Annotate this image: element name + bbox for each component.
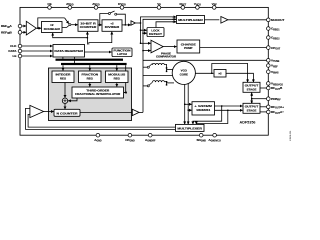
wire x2 out to output stage: [226, 73, 253, 82]
switch lever doubler bypass: [65, 18, 69, 24]
div2 divider box: [102, 20, 122, 32]
wire inductor rail stub 2: [143, 85, 147, 87]
wire between output stages: [251, 92, 253, 103]
wire DATA to data register: [22, 50, 53, 52]
N output buffer: [132, 109, 139, 115]
VCO core circle: [172, 61, 195, 84]
arrow mux bottom in 3: [192, 121, 194, 124]
wire inductor 1 vco stub: [167, 68, 174, 70]
wire CLK to data register: [22, 45, 53, 47]
wire output stage B to RFOUTB: [260, 87, 267, 89]
R counter box: [78, 20, 98, 32]
wire into PFD input 1: [141, 42, 151, 44]
svg-text:N COUNTER: N COUNTER: [57, 111, 79, 115]
RF divider box: [192, 102, 215, 115]
svg-text:CE: CE: [47, 2, 51, 6]
wire VCO down 1: [184, 84, 186, 125]
junction dots: [37, 22, 252, 111]
switch contact divider right: [115, 13, 117, 15]
wire REFinA to buffer: [22, 25, 26, 27]
REFin buffer: [26, 21, 36, 35]
svg-text:MUXOUT: MUXOUT: [271, 18, 285, 22]
wire doubler bypass up and over: [38, 18, 65, 28]
wire N input buffer to N counter: [44, 111, 54, 113]
wire R path up to multiplexer: [141, 17, 177, 23]
svg-text:PUMP: PUMP: [184, 46, 192, 50]
svg-text:DATA REGISTER: DATA REGISTER: [54, 49, 84, 53]
wire VCO bypass up over x2: [212, 64, 248, 82]
svg-text:16/32/64: 16/32/64: [196, 108, 210, 112]
svg-text:MULTIPLEXER: MULTIPLEXER: [178, 18, 204, 22]
wire R counter output: [98, 24, 102, 26]
wire data register to function latch: [85, 51, 112, 53]
arrow mux bottom in 1: [184, 121, 186, 124]
wire R path down to PFD input 1: [140, 23, 142, 43]
charge pump box: [177, 40, 200, 53]
svg-text:FRACTIONAL INTERPOLATOR: FRACTIONAL INTERPOLATOR: [75, 92, 121, 96]
bus data register up: [86, 38, 88, 45]
svg-text:DATA: DATA: [8, 49, 17, 53]
pin circles left: [18, 24, 22, 58]
svg-text:COMPARATOR: COMPARATOR: [156, 54, 177, 58]
muxout buffer: [221, 17, 228, 24]
svg-text:13909-001: 13909-001: [290, 130, 292, 141]
pin circles top: [48, 6, 216, 10]
switch lever divider bypass: [110, 11, 114, 13]
wire PFD to charge pump: [163, 46, 176, 48]
svg-text:STAGE: STAGE: [247, 87, 257, 91]
data register box: [53, 45, 85, 58]
sigma delta grey box: [49, 68, 132, 121]
fraction reg box: [79, 71, 102, 83]
svg-text:REFINB: REFINB: [1, 31, 13, 36]
bus over to divider: [89, 32, 112, 45]
N input buffer: [30, 105, 44, 117]
wire N counter to output buffer: [80, 111, 132, 113]
output stage A box: [243, 103, 260, 113]
wire charge pump to CPOUT pin: [200, 47, 267, 49]
arrow into output stage top 1: [247, 79, 249, 82]
arrow bus into doubler: [52, 33, 54, 36]
wire N path vertical: [143, 19, 176, 112]
wire VCO out to x2: [195, 72, 213, 74]
wire feedback line 1: [28, 114, 175, 127]
modulus reg box: [106, 71, 129, 83]
chip outline ADF5356: [20, 7, 268, 135]
multiplexer top box: [177, 16, 205, 24]
svg-text:ADF5356: ADF5356: [240, 120, 257, 125]
wire VCO tap to divider in 1: [185, 103, 192, 105]
function latch box: [112, 48, 132, 57]
wire VCO tap to divider in 2: [188, 109, 191, 111]
wire feedback tap 2 down to mux: [196, 110, 228, 124]
wire divider2 output 2: [215, 109, 243, 111]
wire divider2 output 1: [215, 105, 243, 107]
arrow mux input 2: [172, 18, 176, 20]
thick bus bar 2: [61, 63, 127, 65]
svg-text:CLK: CLK: [10, 44, 17, 48]
output stage B box: [243, 82, 260, 92]
wire inductor 2 to VCO: [165, 82, 167, 85]
N counter box: [54, 109, 80, 116]
wire divider bypass up and over: [100, 14, 109, 25]
wire VCO left lower line: [143, 75, 174, 77]
wire integer reg to summer: [64, 83, 66, 98]
wire feedback tap 1 down to mux: [193, 106, 222, 124]
svg-text:REG: REG: [87, 76, 94, 80]
wire lock detect output to multiplexer: [156, 22, 176, 28]
wire REFinB to buffer: [22, 31, 26, 33]
multiplexer bottom box: [176, 124, 205, 131]
wire inductor 1 to VCO: [165, 64, 167, 71]
wire interpolator to summer: [68, 98, 77, 101]
wire doubler output to switch contact: [62, 26, 69, 28]
arrow bus into divider: [111, 32, 113, 34]
arrow mux bottom in 2: [187, 121, 189, 124]
wire divider switch right contact down: [117, 14, 126, 25]
arrow mux input 3: [172, 21, 176, 23]
wire feedback line 2: [26, 108, 176, 129]
arrow into interpolator right: [124, 92, 127, 94]
bus over to doubler: [53, 33, 88, 38]
arrow mux bottom in 4: [195, 122, 197, 125]
arrow mux input 1: [172, 16, 176, 18]
x2 multiplier box: [214, 70, 226, 78]
wire into PFD input 2: [143, 50, 151, 52]
integer reg box: [52, 71, 74, 83]
wire LE to data register: [22, 55, 53, 57]
wire R path buffer output: [135, 22, 140, 24]
svg-text:DETECT: DETECT: [149, 32, 162, 36]
wire output stage A to RFOUTA+: [260, 106, 267, 108]
svg-text:STAGE: STAGE: [247, 108, 257, 112]
wire divider output to buffer: [122, 24, 131, 26]
wire switch to R counter: [71, 24, 78, 26]
wire PDBRF: [252, 98, 267, 100]
svg-text:CORE: CORE: [180, 72, 188, 76]
wire N output buffer right: [139, 111, 143, 113]
wire inductor rail stub 1: [143, 66, 147, 68]
svg-text:LATCH: LATCH: [117, 52, 127, 56]
svg-text:REG: REG: [60, 76, 67, 80]
summer: [62, 98, 67, 103]
bus right end into interpolator: [124, 65, 126, 92]
pin circles right: [267, 18, 271, 114]
arrow bus into R counter: [86, 32, 88, 38]
wire inductor 2 vco stub: [167, 82, 175, 84]
arrow into summer right: [68, 100, 71, 102]
wire fraction reg to interpolator: [89, 83, 91, 87]
third order fractional interpolator box: [72, 87, 124, 98]
svg-text:DIVIDER: DIVIDER: [105, 25, 121, 29]
wire buffer output to doubler: [36, 27, 41, 29]
lock detect box: [147, 28, 164, 37]
wire lock detect tap 2: [143, 32, 147, 34]
wire multiplexer to MUXOUT buffer: [205, 19, 220, 21]
pin circles bottom: [96, 133, 216, 137]
svg-text:MULTIPLEXER: MULTIPLEXER: [177, 126, 203, 130]
switch contact divider left: [108, 13, 110, 15]
bus data register down 2: [74, 57, 76, 64]
svg-text:COUNTER: COUNTER: [80, 25, 98, 29]
wire lock detect tap 1: [141, 29, 147, 31]
switch contact doubler: [69, 24, 71, 26]
arrow into output stage top 2: [252, 79, 254, 82]
svg-text:REFINA: REFINA: [1, 24, 13, 29]
arrow bus into modulus reg: [116, 65, 118, 70]
wire output stage A to RFOUTA-: [260, 111, 267, 113]
arrow bus into integer reg: [62, 65, 64, 70]
svg-text:DOUBLER: DOUBLER: [44, 27, 61, 31]
wire VCO down 2: [187, 84, 189, 125]
svg-text:LE: LE: [13, 54, 17, 58]
inductor L2: [147, 81, 164, 87]
wire MUXOUT buffer to pin: [228, 19, 267, 21]
bus data register down 1: [62, 57, 64, 59]
wire modulus reg to interpolator: [116, 83, 118, 87]
svg-text:REG: REG: [114, 76, 121, 80]
doubler box: [42, 22, 63, 33]
wire VTUNE: [143, 59, 267, 61]
svg-text:×2: ×2: [218, 72, 222, 76]
arrow bus into fraction reg: [89, 65, 91, 70]
wire summer to N counter: [64, 104, 66, 110]
thick bus bar 1: [56, 59, 124, 61]
inductor L1: [147, 63, 164, 68]
R path buffer: [131, 21, 135, 25]
phase comparator triangle U1: [151, 40, 163, 53]
